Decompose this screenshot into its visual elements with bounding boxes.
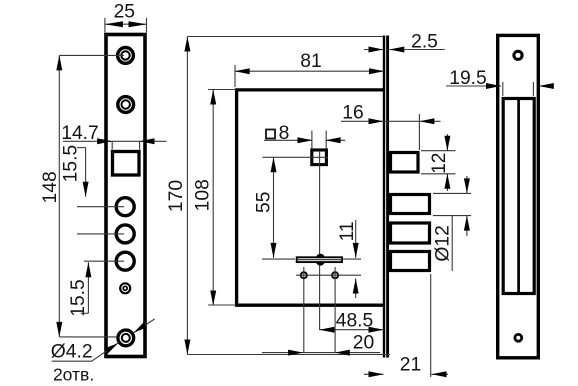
- cylinder screw hole right: [332, 272, 338, 278]
- middle view: lock body outline: [237, 90, 383, 305]
- svg-text:25: 25: [114, 1, 135, 22]
- dimension 12 extension lines: [421, 151, 456, 174]
- dimension 16 line and arrows: [341, 118, 441, 124]
- right view: bottom screw hole: [515, 334, 522, 341]
- left view: small hole D: [120, 283, 130, 293]
- dimension 148 line and arrows: [56, 55, 62, 337]
- dimension 15.5 lower line and arrow: [81, 262, 92, 313]
- svg-text:20: 20: [353, 333, 374, 354]
- hole diameter leader with arrows: [52, 319, 155, 361]
- svg-text:21: 21: [400, 355, 421, 376]
- right view: top screw hole: [514, 51, 522, 59]
- left view: bottom screw hole E: [118, 330, 134, 346]
- leader line to hole B: [77, 233, 124, 235]
- svg-text:15.5: 15.5: [68, 279, 89, 317]
- dimension 25 line and arrows: [105, 21, 147, 27]
- svg-text:Ø4.2: Ø4.2: [51, 342, 93, 363]
- svg-text:8: 8: [279, 123, 290, 144]
- svg-text:170: 170: [166, 180, 187, 212]
- svg-text:108: 108: [192, 179, 213, 211]
- left view: handle hole A: [116, 198, 134, 216]
- dimension diameter 12 lines and arrows: [464, 176, 470, 236]
- dimension 12 lines and arrows: [444, 134, 450, 191]
- left view: faceplate front outline: [106, 35, 145, 357]
- dimension 14.7 line and arrows: [63, 138, 167, 144]
- svg-text:2отв.: 2отв.: [53, 365, 94, 385]
- right view: slot divider: [517, 99, 520, 294]
- svg-text:2.5: 2.5: [411, 32, 438, 53]
- dimension 81 extension line: [234, 65, 236, 87]
- dimension 170 extension lines: [187, 37, 390, 355]
- svg-text:55: 55: [254, 192, 275, 213]
- left view: square spindle hole: [113, 152, 140, 176]
- deadbolt 2: [391, 223, 430, 243]
- deadbolt 3: [391, 252, 430, 271]
- left view: handle hole C: [116, 252, 134, 270]
- svg-text:48.5: 48.5: [336, 311, 374, 332]
- middle view: square spindle hole: [312, 150, 327, 165]
- leader line to hole A: [77, 206, 124, 208]
- screw holes centerlines: [296, 267, 361, 353]
- cylinder centerline: [262, 258, 361, 260]
- right view: strike plate outline: [498, 35, 539, 357]
- dimension 21 lines and arrows: [364, 371, 448, 377]
- svg-text:11: 11: [337, 221, 358, 241]
- spindle hole extension lines: [312, 131, 326, 149]
- dimension 19.5 extension lines: [503, 82, 534, 96]
- leader line to hole C: [84, 260, 124, 262]
- dimension 16 extension line: [418, 114, 420, 150]
- right view: bolt slot box: [503, 99, 534, 294]
- dimension 55 line and arrows: [271, 157, 277, 258]
- dimension 15.5 upper line and arrow: [77, 148, 89, 197]
- middle view: faceplate edge bar: [384, 36, 388, 358]
- dimension 20 line and arrows: [262, 350, 380, 356]
- left view: handle hole B: [116, 225, 134, 243]
- deadbolt 1: [391, 195, 430, 214]
- dimension 11 lines and arrows: [353, 220, 359, 298]
- dimension 14.7 extension lines: [112, 141, 139, 149]
- dimension 48.5 line and arrows: [319, 327, 383, 333]
- svg-text:Ø12: Ø12: [432, 225, 453, 261]
- dimension 21 extension line: [430, 274, 432, 377]
- svg-text:16: 16: [342, 103, 363, 124]
- svg-text:15.5: 15.5: [60, 145, 81, 183]
- dimension 2.5 lines and arrows: [364, 47, 445, 53]
- dimension diameter 12 extension lines: [433, 193, 471, 215]
- dimension 81 line and arrows: [235, 68, 384, 74]
- svg-text:19.5: 19.5: [449, 68, 487, 89]
- latch bolt top: [391, 153, 419, 173]
- dimension 108 line and arrows: [210, 90, 216, 306]
- svg-text:148: 148: [40, 171, 61, 203]
- dimension square 8 label: [266, 123, 289, 144]
- spindle hole centerlines: [263, 151, 328, 330]
- cylinder screw hole left: [301, 272, 307, 278]
- dimension square 8 lines and arrows: [264, 137, 345, 143]
- left view: screw hole C2: [118, 97, 134, 113]
- left view: top screw hole C1: [118, 48, 134, 64]
- svg-text:12: 12: [429, 152, 450, 173]
- svg-text:81: 81: [300, 51, 321, 72]
- dimension 170 line and arrows: [184, 37, 190, 355]
- svg-text:14.7: 14.7: [61, 123, 99, 144]
- dimension 148 leader lines: [59, 55, 124, 337]
- dimension 108 extension lines: [208, 90, 236, 306]
- cylinder profile: [297, 254, 343, 266]
- dimension 25 extension lines: [105, 18, 147, 33]
- dimension 19.5 lines and arrows: [446, 83, 554, 89]
- dimension diameter 12 label: [432, 216, 453, 271]
